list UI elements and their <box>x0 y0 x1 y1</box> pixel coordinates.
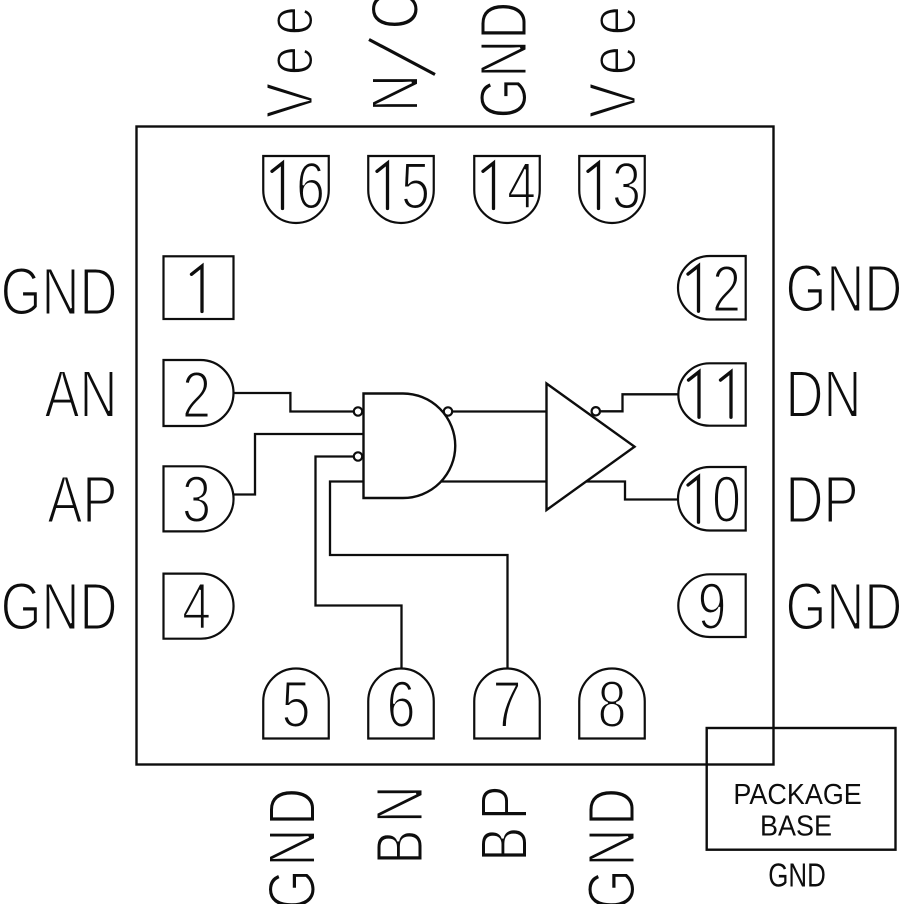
pin 13 number <box>588 163 599 209</box>
svg-text:GND: GND <box>1 568 118 644</box>
svg-text:GND: GND <box>786 250 900 326</box>
pin 8 <box>579 669 645 739</box>
pin 14 number <box>483 163 494 209</box>
inversion bubble buffer output DN <box>592 407 600 415</box>
svg-text:9: 9 <box>698 569 727 644</box>
wire pin6 BN to gate input <box>316 457 402 673</box>
pin 1 <box>164 256 234 319</box>
wire gate to buffer top rail <box>440 410 548 412</box>
svg-text:C: C <box>357 0 433 30</box>
pin 14 <box>474 156 540 223</box>
pin 3 <box>164 466 234 531</box>
inversion bubble gate input BN <box>354 452 362 460</box>
pin 7 <box>474 669 540 739</box>
pin 11 number <box>689 372 700 418</box>
inversion bubble gate input AN <box>354 407 362 415</box>
svg-text:5: 5 <box>282 667 311 742</box>
pin 12 <box>678 256 746 320</box>
svg-text:GND: GND <box>768 858 826 895</box>
svg-text:3: 3 <box>182 462 211 537</box>
pin 9 <box>678 574 745 637</box>
pin 12 number <box>688 266 699 312</box>
package base box <box>707 728 896 850</box>
svg-text:7: 7 <box>493 667 522 742</box>
svg-text:2: 2 <box>182 357 211 432</box>
svg-text:GND: GND <box>573 785 649 904</box>
pin 16 <box>263 156 329 223</box>
svg-text:4: 4 <box>507 148 536 223</box>
inversion bubble gate output <box>444 407 452 415</box>
svg-text:6: 6 <box>296 148 325 223</box>
svg-text:8: 8 <box>598 667 627 742</box>
svg-text:5: 5 <box>401 148 430 223</box>
pin 2 <box>164 360 234 426</box>
pin 1 number <box>192 266 203 312</box>
pin 16 number <box>272 163 283 209</box>
svg-text:GND: GND <box>786 568 900 644</box>
svg-text:6: 6 <box>387 667 416 742</box>
svg-text:BN: BN <box>361 779 437 865</box>
svg-text:PACKAGE: PACKAGE <box>733 778 861 810</box>
svg-text:GND: GND <box>465 2 541 119</box>
svg-text:GND: GND <box>254 785 330 904</box>
svg-text:0: 0 <box>712 462 741 537</box>
pin 10 number <box>688 477 699 523</box>
svg-text:4: 4 <box>182 569 211 644</box>
svg-text:3: 3 <box>612 148 641 223</box>
svg-text:AN: AN <box>44 356 117 432</box>
svg-text:GND: GND <box>1 253 118 329</box>
svg-text:2: 2 <box>712 251 741 326</box>
svg-text:BP: BP <box>466 779 542 862</box>
pin 4 <box>164 574 234 639</box>
svg-text:BASE: BASE <box>760 810 832 842</box>
buffer U2 triangle <box>547 384 635 511</box>
pin 10 <box>678 467 746 531</box>
svg-text:Vee: Vee <box>252 0 328 118</box>
pin 15 <box>368 156 434 223</box>
svg-text:DN: DN <box>786 356 862 432</box>
svg-text:DP: DP <box>786 461 859 537</box>
wire pin2 to gate input <box>231 393 356 412</box>
pin 13 <box>579 156 645 223</box>
pin 11 <box>678 363 745 425</box>
wire buffer to pin11 DN <box>594 394 681 411</box>
svg-text:N: N <box>357 74 433 112</box>
pin 15 number <box>377 163 388 209</box>
package outline <box>137 127 774 765</box>
AND gate U1 <box>364 394 456 499</box>
svg-text:Vee: Vee <box>574 0 650 118</box>
wire buffer to pin10 DP <box>580 482 681 500</box>
svg-text:AP: AP <box>47 461 117 537</box>
wire pin7 BP to gate input <box>330 482 508 673</box>
pin 6 <box>368 669 434 739</box>
wire gate to buffer bottom rail <box>438 480 548 482</box>
wire pin3 to gate input <box>231 434 365 495</box>
pin 5 <box>263 669 329 739</box>
